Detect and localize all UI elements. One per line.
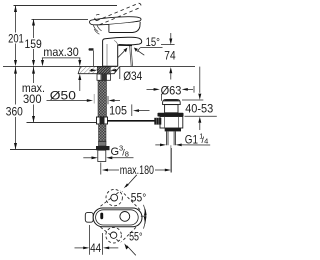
stream angle arrow right	[137, 50, 144, 55]
knob circle in rotated position (top)	[111, 194, 118, 201]
counter reference line right	[120, 66, 195, 68]
svg-text:40-53: 40-53	[185, 102, 213, 115]
svg-text:Ø63: Ø63	[161, 85, 182, 98]
faucet body side view	[103, 37, 142, 66]
svg-text:max.30: max.30	[43, 46, 78, 59]
label G3/8 with dimension arrows	[83, 157, 91, 159]
svg-text:max.180: max.180	[120, 164, 154, 177]
dimension line 159/max300 (x=33)	[33, 19, 35, 122]
svg-text:201: 201	[8, 32, 24, 45]
svg-text:15°: 15°	[146, 36, 160, 49]
svg-text:300: 300	[23, 93, 42, 106]
top view: cartridge dome circle	[120, 212, 130, 222]
water stream lines	[130, 46, 132, 66]
svg-text:Ø34: Ø34	[123, 70, 143, 83]
dimension max.180	[100, 163, 102, 175]
cartridge housing under lever	[109, 22, 140, 33]
svg-text:105: 105	[109, 105, 127, 118]
stream angle arrow left	[118, 51, 124, 57]
raised lever (dashed)	[95, 3, 141, 25]
svg-text:74: 74	[164, 49, 176, 62]
max.300 extent line	[27, 122, 97, 124]
top view: aerator bump	[85, 212, 93, 222]
reference line (159 level)	[32, 18, 89, 20]
lever handle (horizontal)	[89, 17, 141, 25]
dimension 44	[89, 225, 91, 255]
lever rotated down position (dashed)	[101, 224, 140, 243]
top view: inner lever capsule	[96, 210, 139, 225]
counter reference line left	[3, 66, 78, 68]
dimension line 201/360 (x=15.5)	[15, 6, 17, 150]
plug neck	[165, 105, 178, 113]
label G1 1/4 with dimension arrows	[155, 144, 160, 146]
aerator under spout	[119, 44, 133, 46]
supply hose lower braided section	[99, 124, 107, 142]
svg-text:G1: G1	[185, 133, 198, 146]
G3/8 nipple	[98, 150, 106, 161]
tailpiece slip nut (dark band)	[165, 128, 181, 131]
svg-text:8: 8	[125, 150, 129, 159]
swivel arc with double arrow	[144, 205, 146, 229]
360 extent line	[10, 149, 96, 151]
svg-text:55°: 55°	[131, 192, 147, 205]
reference line top (201 level)	[14, 5, 118, 7]
waste flange nut (dark band)	[158, 113, 184, 117]
pop-up actuating rod	[108, 120, 156, 122]
body inner contour line	[106, 44, 108, 66]
svg-text:44: 44	[90, 242, 102, 255]
supply hose upper braided section	[98, 81, 107, 118]
hose union nut	[97, 117, 108, 124]
svg-text:4: 4	[204, 137, 208, 146]
dimension O34	[90, 69, 93, 71]
lever rotated up position (dashed)	[101, 189, 141, 209]
spout outlet level reference line	[161, 44, 175, 46]
top view: faucet body	[93, 208, 142, 227]
waste body	[160, 117, 183, 129]
counter cross-section slab	[79, 67, 117, 74]
lever hinge joint detail	[93, 25, 101, 34]
knob circle in rotated position (bottom)	[110, 232, 116, 238]
drain centre extension line	[170, 145, 172, 172]
counter break mark left	[78, 66, 81, 74]
svg-text:360: 360	[6, 105, 23, 118]
pop-up pull rod knob	[89, 48, 94, 50]
ball joint nut (dark, ridged)	[154, 118, 161, 125]
faucet side view: mounting nut below counter	[97, 74, 111, 80]
svg-text:G: G	[111, 146, 120, 158]
faucet side view: threaded shank through counter	[97, 67, 110, 74]
dimension 74	[170, 33, 172, 39]
top view: mounting hole slot (dark)	[100, 213, 103, 220]
svg-text:55°: 55°	[129, 231, 143, 244]
tailpipe G1 1/4	[167, 131, 176, 145]
hose end sleeve	[99, 142, 107, 147]
hose end nut G3/8	[96, 146, 110, 150]
dimension 40-53	[199, 67, 201, 93]
svg-text:159: 159	[25, 38, 42, 51]
counter break mark right	[114, 66, 120, 79]
dimension O63	[147, 88, 155, 90]
pop-up waste plug cap	[163, 99, 181, 104]
